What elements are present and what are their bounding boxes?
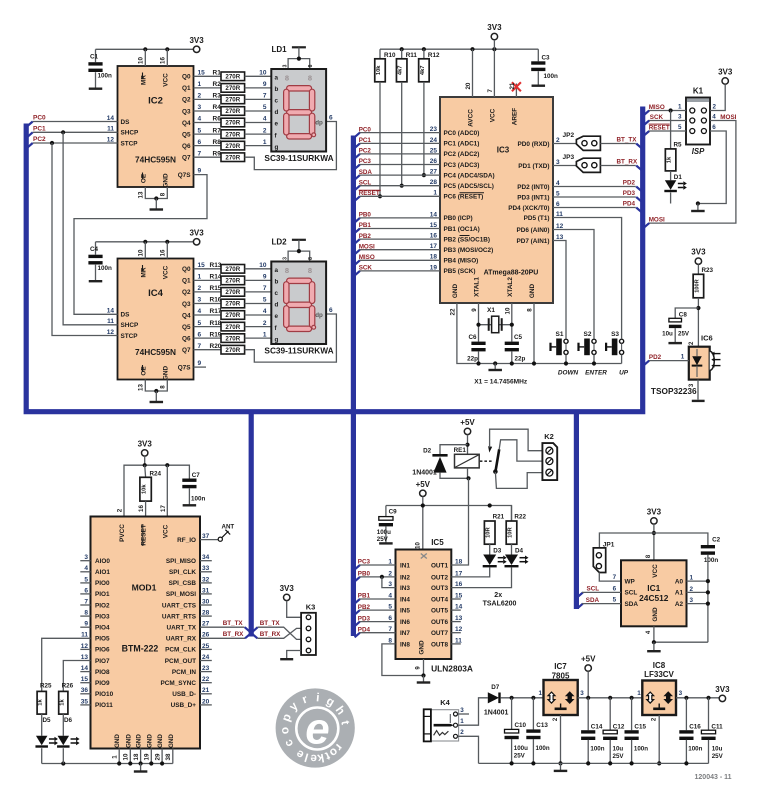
svg-text:IC2: IC2 [148, 96, 163, 107]
svg-text:BT_TX: BT_TX [617, 136, 638, 143]
svg-text:K3: K3 [306, 603, 316, 612]
svg-text:3: 3 [283, 257, 289, 260]
svg-text:2: 2 [263, 127, 267, 134]
svg-text:BT_RX: BT_RX [617, 158, 638, 165]
node PC0 / pin 23 [355, 133, 360, 138]
svg-text:PIO1: PIO1 [95, 591, 110, 598]
svg-text:JP3: JP3 [563, 154, 575, 161]
svg-text:e: e [275, 313, 279, 320]
svg-text:PD4 (XCK/T0): PD4 (XCK/T0) [508, 205, 549, 212]
svg-text:18: 18 [133, 753, 140, 760]
svg-text:5: 5 [613, 597, 617, 604]
svg-text:PIO9: PIO9 [95, 680, 110, 687]
svg-text:dp: dp [315, 312, 323, 319]
svg-text:SPI_MISO: SPI_MISO [166, 558, 196, 565]
svg-text:Q1: Q1 [182, 85, 191, 92]
net label PD4 [355, 633, 360, 638]
node PC2 / pin 25 [355, 154, 360, 159]
svg-text:Q2: Q2 [182, 97, 191, 104]
ground IC7 [560, 715, 562, 763]
node SCL / pin 28 [355, 186, 360, 191]
svg-text:3V3: 3V3 [647, 507, 662, 516]
svg-text:100R: 100R [694, 279, 700, 292]
svg-text:VCC: VCC [162, 265, 169, 279]
net label MISO [644, 111, 649, 116]
svg-text:16: 16 [138, 505, 145, 512]
svg-text:100u: 100u [514, 745, 528, 752]
svg-text:270R: 270R [225, 347, 240, 354]
svg-text:4: 4 [198, 308, 202, 315]
svg-text:18: 18 [430, 254, 438, 261]
power 3V3 [193, 46, 199, 52]
bus drop BT_TX/BT_RX to K3 [249, 411, 254, 637]
svg-text:24: 24 [430, 137, 438, 144]
svg-text:PD3: PD3 [623, 190, 636, 197]
svg-text:11: 11 [556, 211, 563, 218]
net label PD3 [553, 196, 636, 198]
svg-text:7: 7 [263, 93, 267, 100]
svg-text:GND: GND [114, 734, 121, 748]
svg-text:10u: 10u [613, 746, 624, 753]
wire [245, 145, 272, 147]
capacitor C15 100n [631, 698, 633, 730]
svg-text:C3: C3 [542, 55, 551, 62]
wire GND8 [533, 303, 535, 364]
svg-text:3V3: 3V3 [487, 23, 502, 32]
svg-text:16: 16 [160, 57, 167, 64]
svg-text:PD2 (INT0): PD2 (INT0) [517, 184, 549, 191]
svg-text:K4: K4 [440, 698, 450, 707]
resistor R12 4k7 [423, 49, 425, 59]
svg-text:Q1: Q1 [182, 278, 191, 285]
svg-text:100n: 100n [590, 746, 604, 753]
svg-text:C1: C1 [90, 54, 99, 61]
svg-text:XTAL2: XTAL2 [507, 277, 514, 297]
svg-text:3: 3 [198, 104, 202, 111]
svg-text:GND: GND [419, 640, 426, 655]
svg-text:SDA: SDA [586, 597, 600, 604]
svg-text:10: 10 [138, 57, 145, 64]
net label PB1 [355, 599, 360, 604]
svg-text:PB0 (ICP): PB0 (ICP) [444, 215, 473, 222]
svg-text:GND: GND [529, 284, 536, 299]
svg-text:PD2: PD2 [623, 180, 636, 187]
svg-text:JP2: JP2 [563, 132, 575, 139]
svg-text:GND: GND [162, 366, 169, 381]
svg-text:Q2: Q2 [182, 289, 191, 296]
svg-text:PC0: PC0 [33, 115, 46, 122]
svg-text:IC1: IC1 [647, 583, 660, 593]
svg-text:11: 11 [107, 126, 114, 133]
wire [245, 303, 272, 305]
svg-text:PD3 (INT1): PD3 (INT1) [517, 194, 549, 201]
svg-text:PD2: PD2 [649, 354, 662, 361]
svg-text:10u: 10u [712, 746, 723, 753]
svg-text:2: 2 [198, 285, 202, 292]
wire PC2 to IC4 STCP [50, 141, 54, 145]
svg-text:Q5: Q5 [182, 131, 191, 138]
svg-text:15: 15 [198, 262, 206, 269]
svg-text:Q4: Q4 [182, 312, 191, 319]
svg-text:10R: 10R [508, 526, 514, 537]
net label PC3 [355, 565, 360, 570]
ground under IC4 [145, 380, 167, 392]
wire [245, 133, 272, 135]
svg-text:VCC: VCC [162, 73, 169, 87]
svg-text:ULN2803A: ULN2803A [431, 664, 473, 674]
net label PD2 (IC6) [644, 361, 649, 366]
ground IC1 [654, 626, 708, 642]
svg-text:RESET: RESET [649, 124, 670, 131]
net label PD3 [355, 622, 360, 627]
svg-text:e: e [310, 752, 318, 766]
svg-text:3V3: 3V3 [691, 248, 706, 257]
bus drop SCL/SDA to IC1 [574, 411, 579, 609]
svg-text:C11: C11 [711, 724, 723, 731]
svg-text:4k7: 4k7 [420, 65, 426, 75]
svg-text:3V3: 3V3 [138, 439, 153, 448]
svg-text:270R: 270R [225, 312, 240, 319]
svg-text:OUT7: OUT7 [431, 630, 448, 637]
svg-text:GND: GND [146, 734, 153, 748]
svg-text:29: 29 [155, 753, 162, 760]
svg-text:C9: C9 [389, 508, 398, 515]
resistor R1 270R [194, 75, 222, 77]
svg-text:S2: S2 [584, 331, 592, 338]
power 3V3 for IC6 [695, 258, 701, 264]
svg-text:UART_RTS: UART_RTS [162, 613, 197, 620]
svg-text:28: 28 [430, 179, 438, 186]
ground bus under MOD1 [42, 763, 173, 765]
wire OUT stubs [451, 598, 461, 600]
svg-text:R1: R1 [213, 70, 222, 77]
svg-text:38: 38 [165, 753, 172, 760]
svg-text:AVCC: AVCC [468, 109, 475, 127]
svg-text:1: 1 [263, 331, 267, 338]
svg-text:9: 9 [263, 81, 267, 88]
pin AREF with red cross [515, 84, 517, 98]
svg-text:USB_D-: USB_D- [172, 691, 196, 698]
svg-text:25V: 25V [377, 536, 389, 543]
ground mid rail [493, 361, 497, 365]
net label SDA (IC1) [578, 604, 583, 609]
svg-text:IN7: IN7 [400, 630, 410, 637]
svg-text:PD4: PD4 [623, 201, 636, 208]
svg-text:8: 8 [308, 64, 314, 67]
net label RESET [644, 131, 649, 136]
wire [245, 337, 272, 339]
svg-text:SHCP: SHCP [121, 130, 139, 137]
resistor R6 270R [194, 122, 222, 124]
svg-text:2: 2 [198, 93, 202, 100]
wire [245, 279, 272, 281]
svg-text:SC39-11SURKWA: SC39-11SURKWA [264, 345, 333, 355]
svg-text:R5: R5 [674, 141, 683, 148]
wire IC4 Q7S stub [194, 366, 207, 368]
svg-text:RE1: RE1 [454, 447, 467, 454]
svg-text:8: 8 [160, 385, 167, 389]
svg-text:SCL: SCL [587, 586, 600, 593]
svg-text:270R: 270R [225, 108, 240, 115]
svg-text:100n: 100n [98, 73, 113, 80]
svg-text:2: 2 [117, 508, 124, 512]
svg-text:OUT8: OUT8 [431, 641, 448, 648]
svg-text:26: 26 [430, 158, 438, 165]
svg-text:1k: 1k [38, 699, 44, 706]
svg-text:2x: 2x [494, 592, 502, 599]
bus vertical (ATmega left / IC5 drop) [351, 136, 356, 637]
svg-text:PB3 (MOSI/OC2): PB3 (MOSI/OC2) [444, 247, 494, 254]
svg-text:1: 1 [112, 755, 119, 759]
svg-text:PIO11: PIO11 [95, 702, 113, 709]
svg-text:AIO1: AIO1 [95, 569, 110, 576]
svg-text:GND: GND [452, 284, 459, 299]
resistor R2 270R [194, 87, 222, 89]
svg-text:LF33CV: LF33CV [644, 670, 674, 679]
svg-text:270R: 270R [225, 324, 240, 331]
resistor R26 1k [63, 661, 90, 692]
svg-text:4: 4 [263, 308, 267, 315]
resistor R18 270R [194, 326, 222, 328]
svg-text:MR: MR [140, 75, 147, 85]
svg-text:MR: MR [140, 267, 147, 277]
capacitor C2 100n [701, 545, 715, 548]
svg-text:270R: 270R [225, 97, 240, 104]
wire [245, 314, 272, 316]
svg-text:C16: C16 [689, 724, 701, 731]
svg-text:A2: A2 [675, 601, 684, 608]
svg-text:R11: R11 [406, 52, 418, 59]
svg-text:PIO2: PIO2 [95, 602, 110, 609]
capacitor C10 100u 25V [511, 698, 513, 730]
svg-text:DOWN: DOWN [558, 369, 579, 376]
svg-text:PC5 (ADC5/SCL): PC5 (ADC5/SCL) [444, 183, 494, 190]
svg-text:MOSI: MOSI [649, 216, 665, 223]
svg-text:6: 6 [712, 124, 716, 131]
resistor R7 270R [194, 133, 222, 135]
svg-text:3V3: 3V3 [718, 68, 733, 77]
svg-text:OUT1: OUT1 [431, 562, 448, 569]
svg-text:8: 8 [527, 308, 534, 312]
svg-text:22p: 22p [515, 355, 526, 362]
IC IC1 24C512 [621, 560, 687, 626]
svg-text:LD2: LD2 [272, 238, 288, 247]
wire Q7 to dp [245, 122, 337, 170]
svg-text:1N4001: 1N4001 [412, 470, 437, 477]
svg-text:STCP: STCP [121, 140, 139, 147]
elektor copyright watermark stamp [276, 688, 355, 767]
capacitor C14 100n [587, 698, 589, 730]
svg-text:IC4: IC4 [148, 288, 164, 299]
net label PB2 [355, 610, 360, 615]
svg-text:9: 9 [198, 360, 202, 367]
svg-text:PIO4: PIO4 [95, 625, 110, 632]
svg-text:24C512: 24C512 [639, 593, 669, 603]
svg-text:PVCC: PVCC [119, 524, 126, 542]
svg-text:IC6: IC6 [701, 334, 713, 343]
resistor R24 10k [144, 465, 147, 477]
svg-text:dp: dp [315, 119, 323, 126]
svg-text:2: 2 [713, 104, 717, 111]
svg-text:7: 7 [487, 89, 494, 93]
resistor R25 1k [42, 638, 91, 691]
svg-text:MOSI: MOSI [720, 114, 736, 121]
svg-text:e: e [275, 121, 279, 128]
svg-text:10: 10 [259, 70, 267, 77]
svg-text:6: 6 [329, 307, 333, 314]
capacitor C7 100n [182, 479, 196, 482]
svg-text:UP: UP [619, 369, 629, 376]
svg-text:270R: 270R [225, 154, 240, 161]
svg-text:OE: OE [140, 173, 147, 183]
svg-text:R10: R10 [384, 52, 396, 59]
svg-text:37: 37 [202, 533, 210, 540]
svg-text:IN3: IN3 [400, 585, 410, 592]
svg-text:PC4 (ADC4/SDA): PC4 (ADC4/SDA) [444, 172, 495, 179]
capacitor C11 10u 25V [708, 698, 710, 730]
svg-text:ISP: ISP [692, 147, 705, 156]
svg-text:3: 3 [678, 114, 682, 121]
svg-text:a: a [275, 75, 279, 82]
svg-text:C10: C10 [515, 722, 527, 729]
svg-text:PIO5: PIO5 [95, 636, 110, 643]
wire +5V rail input side [501, 697, 544, 699]
svg-text:D1: D1 [674, 174, 683, 181]
wire switch to PD [553, 218, 622, 340]
svg-text:7: 7 [263, 285, 267, 292]
svg-text:100n: 100n [544, 73, 559, 80]
capacitor C6 22p [471, 342, 485, 345]
power 3V3 [193, 239, 199, 245]
svg-text:TSOP32236: TSOP32236 [651, 386, 697, 396]
resistor R11 4k7 [401, 49, 403, 59]
svg-text:ANT: ANT [222, 523, 235, 530]
svg-text:+5V: +5V [581, 655, 596, 664]
svg-text:g: g [275, 144, 279, 151]
svg-text:MISO: MISO [649, 104, 665, 111]
svg-text:1k: 1k [667, 156, 673, 163]
svg-text:S3: S3 [611, 331, 619, 338]
svg-text:6: 6 [198, 331, 202, 338]
wire K4 pin3 stub [458, 713, 470, 715]
node MISO / pin 18 [355, 260, 360, 265]
svg-text:C4: C4 [90, 246, 99, 253]
svg-text:5: 5 [198, 320, 202, 327]
svg-text:PD1 (TXD): PD1 (TXD) [518, 163, 549, 170]
svg-text:R24: R24 [150, 471, 162, 478]
svg-text:PC3 (ADC3): PC3 (ADC3) [444, 162, 480, 169]
svg-text:SPI_CLK: SPI_CLK [169, 569, 196, 576]
svg-text:270R: 270R [225, 301, 240, 308]
svg-text:4k7: 4k7 [398, 65, 404, 75]
svg-text:25V: 25V [613, 753, 625, 760]
wire Q7 to dp [245, 314, 337, 362]
wire switch to ground rail [565, 355, 567, 364]
wire switch to PD [553, 230, 594, 340]
svg-text:Q7: Q7 [182, 155, 191, 162]
svg-text:25: 25 [430, 147, 438, 154]
capacitor C8 10u 25V [675, 308, 698, 318]
capacitor C16 100n [685, 698, 687, 730]
svg-text:LD1: LD1 [272, 45, 288, 54]
svg-text:19: 19 [430, 264, 438, 271]
svg-text:R13: R13 [210, 262, 222, 269]
wire PC1 to IC4 SHCP [61, 130, 65, 134]
wire [245, 87, 272, 89]
svg-text:b: b [275, 279, 279, 286]
svg-text:270R: 270R [225, 120, 240, 127]
svg-text:R22: R22 [514, 514, 526, 521]
svg-text:o: o [277, 726, 292, 734]
svg-text:1: 1 [681, 353, 685, 360]
node SDA / pin 27 [355, 175, 360, 180]
resistor R5 1k [670, 111, 672, 149]
svg-text:25V: 25V [514, 753, 526, 760]
resistor R22 10R [511, 506, 513, 522]
svg-text:TSAL6200: TSAL6200 [483, 600, 517, 607]
svg-text:DS: DS [121, 312, 131, 319]
svg-text:PB4 (MISO): PB4 (MISO) [444, 258, 479, 265]
power 3V3 [491, 33, 497, 39]
svg-text:BT_TX: BT_TX [260, 620, 281, 627]
svg-text:7: 7 [613, 574, 617, 581]
resistor R14 270R [194, 279, 222, 281]
svg-text:PD7 (AIN1): PD7 (AIN1) [516, 238, 549, 245]
power 3V3 for IC1 [651, 518, 657, 524]
svg-text:IN2: IN2 [400, 574, 410, 581]
svg-text:UART_TX: UART_TX [167, 625, 197, 632]
relay contact dashed link [480, 460, 494, 462]
svg-text:PC1 (ADC1): PC1 (ADC1) [444, 141, 480, 148]
svg-text:9: 9 [471, 308, 478, 312]
capacitor C9 100u 25V [385, 506, 387, 517]
wire GND22 to rail [457, 303, 622, 364]
svg-text:SC39-11SURKWA: SC39-11SURKWA [264, 153, 333, 163]
wire K4 pin2 to ground rail [458, 736, 479, 763]
svg-text:UART_CTS: UART_CTS [162, 602, 197, 609]
net label BT_TX (MOD1 side) [200, 626, 245, 628]
svg-text:K2: K2 [544, 432, 554, 441]
svg-text:1k: 1k [59, 699, 65, 706]
svg-text:Q4: Q4 [182, 120, 191, 127]
svg-text:C14: C14 [591, 724, 603, 731]
svg-text:DS: DS [121, 119, 131, 126]
svg-text:25V: 25V [678, 331, 690, 338]
svg-text:270R: 270R [225, 289, 240, 296]
wire IC2 Q7S to IC4 DS [74, 175, 207, 315]
svg-text:2: 2 [263, 320, 267, 327]
svg-text:3: 3 [580, 690, 584, 697]
pin 6 wire to ground [698, 131, 726, 204]
svg-text:D4: D4 [515, 547, 524, 554]
svg-text:10R: 10R [486, 526, 492, 537]
svg-text:13: 13 [138, 191, 145, 198]
svg-text:10k: 10k [142, 484, 148, 494]
svg-text:SDA: SDA [625, 601, 639, 608]
wire IN2-IN3 tie [380, 575, 384, 579]
wire +5V rail (C9..R22) [386, 506, 512, 522]
svg-text:PC0 (ADC0): PC0 (ADC0) [444, 130, 480, 137]
power +5V for relay [464, 428, 470, 434]
wire +5V rail output side [578, 697, 643, 699]
ground under D1 [696, 201, 700, 205]
svg-text:A0: A0 [675, 578, 684, 585]
svg-text:C7: C7 [192, 472, 201, 479]
svg-text:VCC: VCC [489, 108, 496, 122]
net label PB0 [355, 577, 360, 582]
svg-text:PB5 (SCK): PB5 (SCK) [444, 268, 476, 275]
wire [245, 326, 272, 328]
